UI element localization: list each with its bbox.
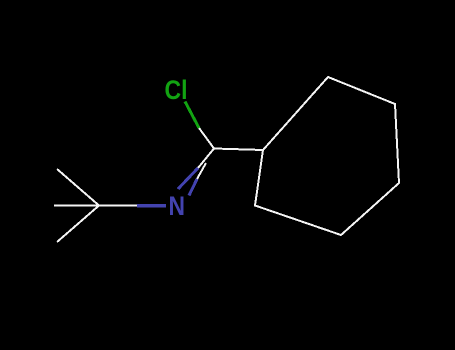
wire: C1=N double bond inner (blue part) [189,179,197,196]
wire: tBu upper methyl [57,169,99,206]
svg-text:N: N [169,191,186,221]
wire: tBu lower methyl [57,206,99,243]
wire: bond Cl to C1 (white half) [199,128,214,149]
wire: C1=N double bond outer (white part near C1) [198,149,214,169]
wire: C1 to ring bond [214,149,263,151]
wire: C1=N double bond outer (blue part near N) [178,168,198,189]
ring: cyclohexane hexagon [255,77,399,235]
wire: N to tBu C bond (blue part near N) [137,204,166,208]
wire: C1=N double bond inner (white part) [197,163,206,179]
svg-text:Cl: Cl [165,75,188,105]
wire: bond Cl to C1 (green half) [185,102,199,129]
wire: N to tBu C bond (white part) and left methyl [54,205,137,207]
